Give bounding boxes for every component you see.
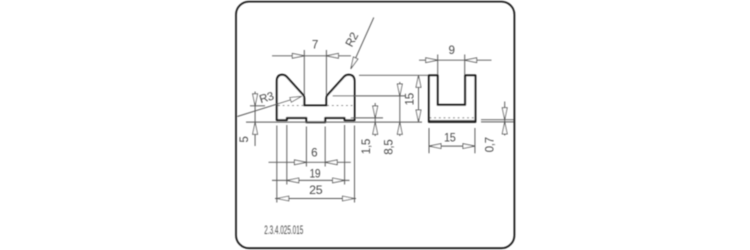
leader R2 arrow [351, 57, 358, 69]
dim 15 (height): bottom arrow [416, 110, 421, 122]
dim 25: right arrow [343, 196, 355, 201]
dim 25: dimension line [275, 198, 356, 200]
dim 9: right arrow [465, 58, 477, 63]
dim 5: bottom arrow [253, 122, 258, 134]
dim 15 (height): dimension line [418, 75, 420, 122]
svg-text:9: 9 [449, 44, 455, 57]
dim 8,5: top arrow [397, 84, 402, 96]
dim 8,5: dimension line [399, 82, 401, 136]
svg-text:0,7: 0,7 [484, 137, 497, 152]
svg-text:15: 15 [403, 93, 416, 105]
bottom extension line (shared by 5 / 1,5 / 8,5 / 15) [246, 121, 422, 123]
leader R2 [351, 18, 374, 69]
dim 19: right arrow [333, 178, 345, 183]
dim 1,5: extension line (groove level) [351, 117, 383, 119]
dim 1,5: bottom arrow [373, 122, 378, 134]
dim 15 (width): dimension line [429, 145, 475, 147]
dim 8,5: extension line (slope base level) [333, 95, 405, 97]
dim 6: right arrow [325, 160, 337, 165]
dim 7: right arrow [326, 53, 338, 58]
dim 6: dimension line [269, 161, 351, 163]
svg-text:19: 19 [309, 167, 320, 180]
dim 25: left arrow [277, 196, 289, 201]
dim 19: dimension line [272, 179, 350, 181]
dim 15 (height): top arrow [416, 75, 421, 87]
dim 9: extension lines [437, 55, 439, 75]
dim 9: dimension line [419, 59, 492, 61]
inner bottom thin line [429, 119, 475, 121]
dim 0,7: top arrow [502, 108, 507, 120]
dim 9: left arrow [426, 58, 438, 63]
svg-text:2.3.4.025.015: 2.3.4.025.015 [264, 225, 303, 237]
dim 15 (width): extension lines [428, 128, 430, 153]
svg-text:8,5: 8,5 [383, 140, 396, 155]
dim 7: left arrow [292, 53, 304, 58]
dim 0,7: bottom arrow [502, 122, 507, 134]
dim 8,5: bottom arrow [397, 122, 402, 134]
dim 0,7: dimension line [504, 102, 506, 136]
bottom dim extension lines [276, 126, 278, 203]
svg-text:7: 7 [312, 39, 318, 52]
leader R3 arrow [290, 96, 302, 102]
dim 15 (width): right arrow [463, 144, 475, 149]
hidden line (slot bottom level) right of slot [327, 105, 353, 107]
dim 19: left arrow [287, 178, 299, 183]
border frame [236, 2, 514, 249]
svg-text:15: 15 [444, 131, 456, 144]
dim 0,7: extension lines [481, 119, 514, 121]
svg-text:5: 5 [238, 137, 251, 143]
dim 6: left arrow [294, 160, 306, 165]
dim 15 (width): left arrow [429, 144, 441, 149]
dim 7: extension lines [303, 50, 305, 96]
dim 5: top arrow [253, 94, 258, 106]
svg-text:25: 25 [309, 184, 322, 197]
leader R3 [237, 96, 301, 116]
left view: profile outline [277, 75, 355, 123]
dim 1,5: dimension line [374, 103, 376, 136]
dim 1,5: top arrow [373, 106, 378, 118]
dim 7: dimension line [272, 55, 351, 57]
dim 5: extension line top [250, 105, 265, 107]
svg-text:1,5: 1,5 [360, 139, 373, 154]
dim 15 (height): top extension line [359, 74, 428, 76]
hidden line (groove level) [430, 117, 475, 119]
svg-text:6: 6 [311, 147, 317, 160]
dim 5: dimension line [254, 92, 256, 147]
right view: U channel outline [429, 75, 476, 122]
hidden line (slot bottom level) left of slot [278, 105, 304, 107]
